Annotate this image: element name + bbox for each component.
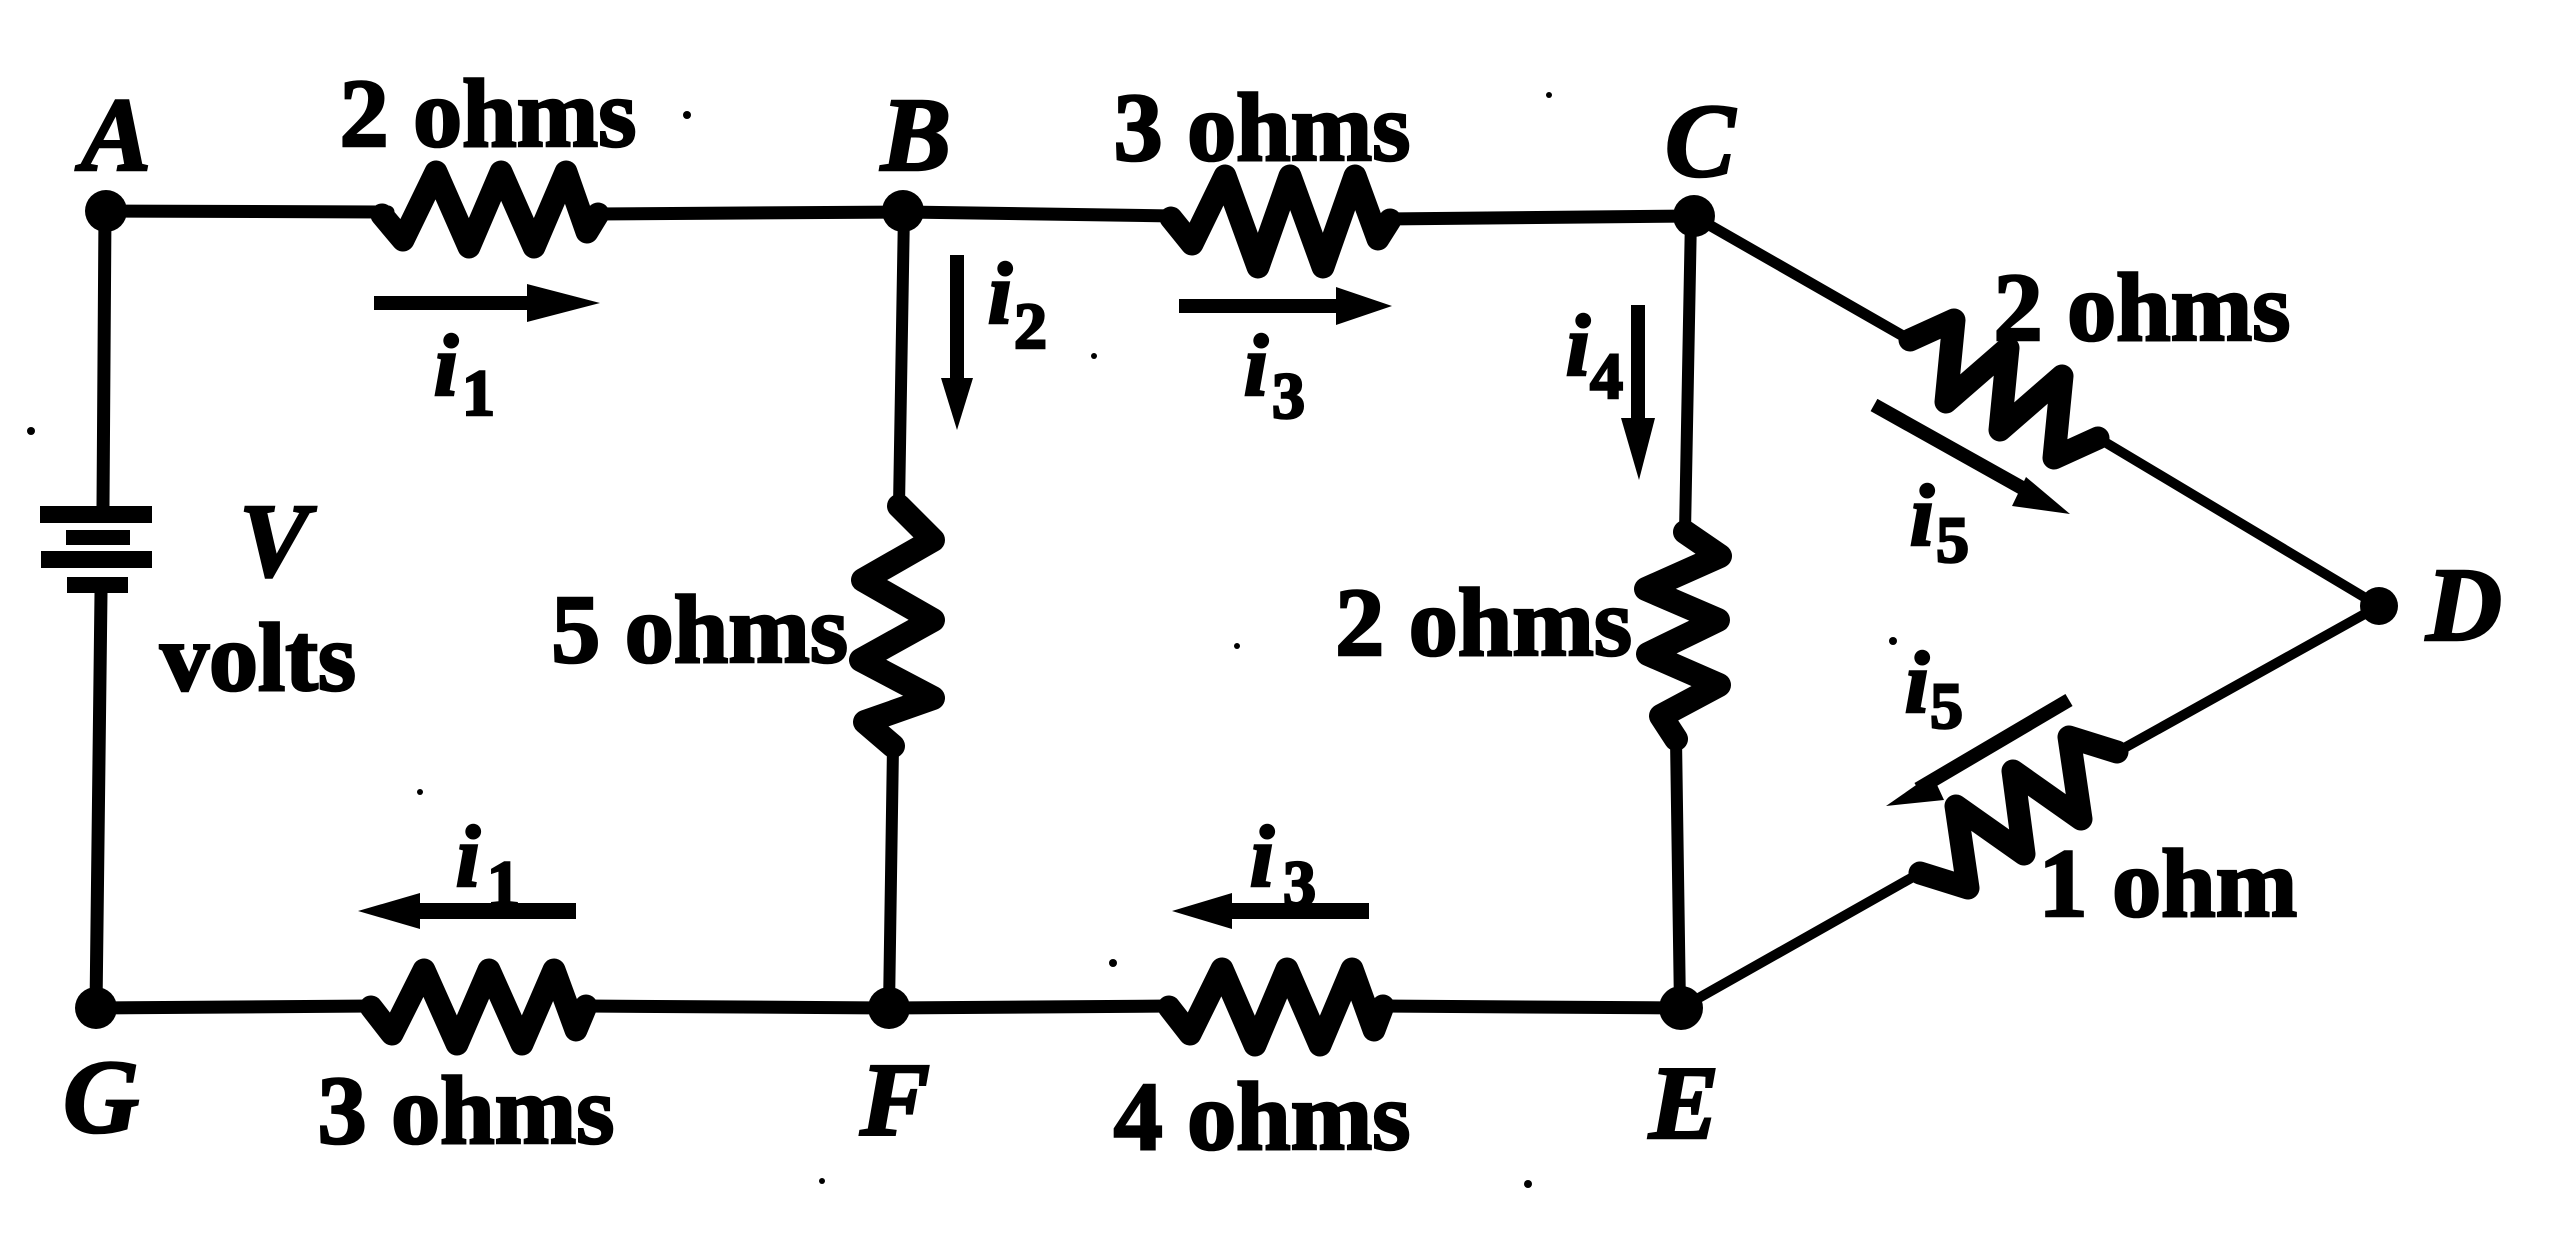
svg-text:F: F (859, 1041, 930, 1158)
svg-text:5 ohms: 5 ohms (551, 576, 848, 684)
battery V plate 3 long (41, 551, 152, 568)
svg-text:2: 2 (1014, 290, 1047, 363)
current label i5 upper (1910, 468, 1969, 577)
resistor R2 3 ohms (B-C) (1171, 176, 1390, 267)
node B (882, 190, 924, 232)
current arrow i1 top (374, 284, 600, 322)
battery V plate 4 short (67, 577, 128, 593)
svg-text:1: 1 (487, 848, 520, 921)
current label i1 bottom (456, 809, 520, 921)
wire G to 3 ohm resistor (96, 1006, 373, 1008)
wire 2 ohm resistor down to E (1676, 739, 1680, 1008)
wire A-B top left segment (104, 211, 388, 212)
resistor R6 5 ohms (B-F) (861, 506, 933, 746)
current label i4 (1566, 298, 1623, 413)
current label i3 top (1244, 318, 1305, 433)
node A (85, 190, 127, 232)
svg-text:B: B (880, 76, 951, 193)
wire 1 ohm resistor to node E (1681, 873, 1920, 1008)
svg-text:volts: volts (160, 604, 356, 712)
svg-text:i: i (1905, 635, 1930, 732)
svg-text:2 ohms: 2 ohms (340, 60, 637, 168)
node G (75, 987, 117, 1029)
scan specks (27, 92, 1897, 1188)
svg-text:A: A (75, 76, 151, 193)
wire resistor to node D (2098, 438, 2379, 606)
svg-text:i: i (434, 318, 459, 415)
wire 5 ohm resistor down to F (889, 746, 893, 1008)
svg-text:D: D (2425, 546, 2502, 663)
svg-text:i: i (1250, 809, 1275, 906)
svg-text:i: i (1910, 468, 1935, 565)
current arrow i5 lower (1886, 700, 2069, 806)
resistor R4 1 ohm (D-E) (1920, 737, 2117, 888)
node D (2360, 587, 2398, 625)
wire A-B top right segment (596, 212, 905, 214)
svg-text:2 ohms: 2 ohms (1335, 569, 1632, 677)
svg-text:5: 5 (1930, 670, 1963, 743)
node C (1673, 195, 1715, 237)
wire D to 1 ohm resistor (2117, 606, 2379, 752)
resistor R5 2 ohms (C-E) (1646, 532, 1720, 739)
battery V plate 1 long (40, 506, 152, 523)
svg-text:3: 3 (1283, 848, 1316, 921)
battery V plate 2 short (66, 530, 130, 545)
wire C down to 2 ohm resistor (1685, 216, 1691, 532)
current arrow i5 upper (1874, 405, 2070, 514)
node E (1659, 986, 1703, 1030)
current arrow i3 bottom (1172, 893, 1369, 929)
svg-text:3: 3 (1272, 360, 1305, 433)
svg-text:1: 1 (462, 357, 495, 430)
svg-text:E: E (1648, 1044, 1719, 1161)
wire 3 ohm resistor to F (585, 1006, 889, 1008)
wire B-C right segment (1390, 216, 1694, 219)
svg-text:3 ohms: 3 ohms (1114, 74, 1411, 182)
node F (868, 987, 910, 1029)
wire A down to battery (103, 211, 105, 506)
svg-text:G: G (63, 1038, 139, 1155)
svg-text:5: 5 (1936, 504, 1969, 577)
svg-text:V: V (239, 482, 317, 599)
current label i5 lower (1905, 635, 1963, 743)
svg-text:i: i (988, 246, 1013, 343)
wire F to 4 ohm resistor (889, 1006, 1172, 1008)
svg-text:i: i (456, 809, 481, 906)
svg-text:C: C (1665, 82, 1737, 199)
svg-text:i: i (1244, 318, 1269, 415)
wire battery down to G (96, 593, 101, 1008)
svg-text:3 ohms: 3 ohms (318, 1057, 615, 1165)
resistor R7 3 ohms (G-F) (371, 970, 586, 1044)
svg-text:4: 4 (1590, 340, 1623, 413)
current arrow i2 (941, 255, 973, 430)
svg-text:4 ohms: 4 ohms (1114, 1063, 1411, 1171)
wire B down to 5 ohm resistor (899, 211, 904, 506)
current label i1 top (434, 318, 495, 430)
wire B-C left segment (905, 212, 1174, 216)
wire C to diagonal resistor (1697, 218, 1910, 340)
svg-text:i: i (1566, 298, 1591, 395)
resistor R1 2 ohms (A-B) (382, 172, 598, 247)
current arrow i4 (1621, 305, 1655, 480)
current arrow i1 bottom (358, 893, 576, 929)
resistor R8 4 ohms (F-E) (1169, 969, 1383, 1045)
svg-text:1 ohm: 1 ohm (2039, 830, 2298, 938)
current label i2 (988, 246, 1047, 363)
current arrow i3 top (1179, 287, 1392, 325)
current label i3 bottom (1250, 809, 1316, 921)
wire 4 ohm resistor to E (1382, 1006, 1681, 1008)
resistor R3 2 ohms (C-D) (1910, 320, 2098, 458)
svg-text:2 ohms: 2 ohms (1994, 254, 2291, 362)
